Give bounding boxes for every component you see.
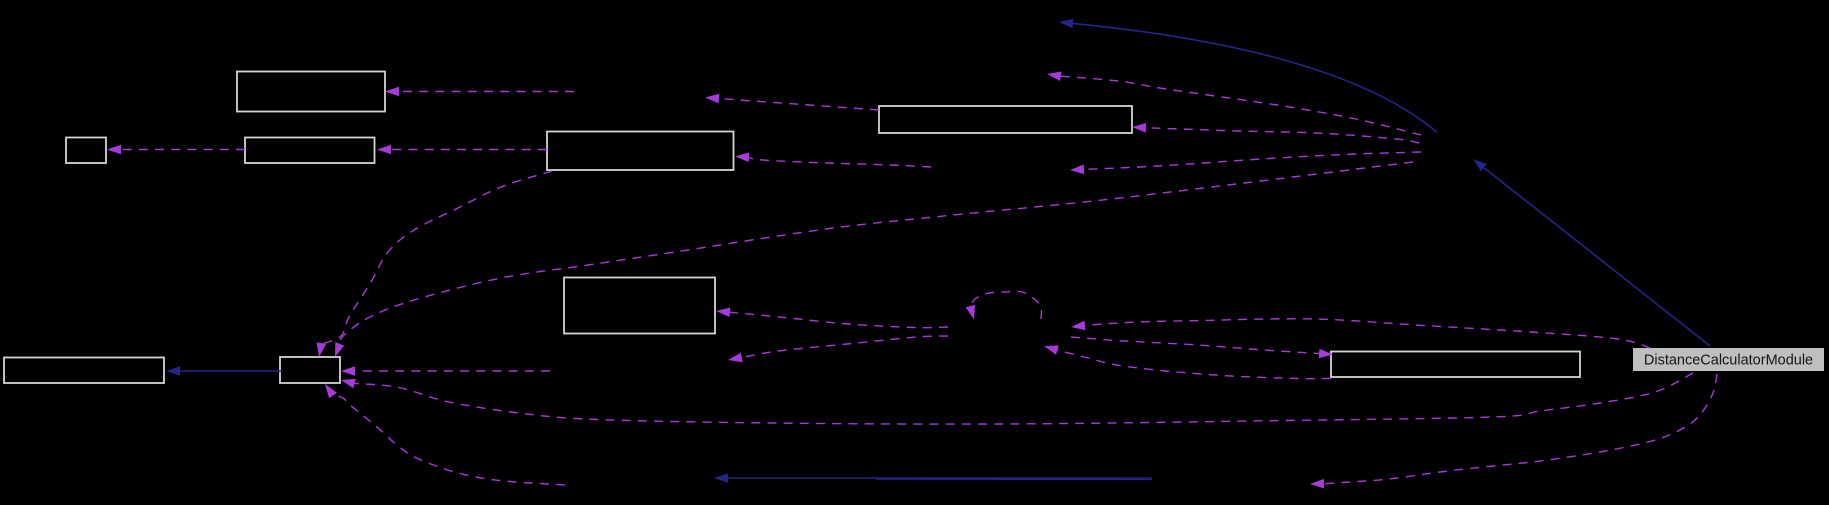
edge boxH to boxG blue xyxy=(166,366,281,376)
edge n_bottom to n_bottom2 blue xyxy=(714,473,1152,483)
node DistanceCalculatorModule xyxy=(1633,348,1824,371)
box F xyxy=(564,278,715,334)
edge n_loop to boxI xyxy=(1071,337,1333,358)
edge hub to boxH long curve xyxy=(335,162,1413,357)
edge DCM to hub blue xyxy=(1473,159,1710,346)
edge n_topmid to boxA xyxy=(385,87,574,97)
box I xyxy=(1331,352,1580,378)
edge selfloop of n_loop xyxy=(966,291,1042,319)
box G xyxy=(4,358,164,384)
edge DCM to n_loop xyxy=(1071,319,1650,348)
box E xyxy=(879,106,1132,133)
edge boxC to boxB xyxy=(107,145,245,155)
edge boxD to boxC xyxy=(377,145,547,155)
svg-text:DistanceCalculatorModule: DistanceCalculatorModule xyxy=(1644,353,1813,369)
edge hub to n_mid xyxy=(1070,152,1421,174)
edge n_mid2 to boxH xyxy=(341,366,550,376)
edge boxE to n_topmid xyxy=(705,94,879,110)
box H xyxy=(280,357,340,383)
wire overlap segment of bottom blue edge xyxy=(876,478,1152,480)
edge DCM to n_bottom xyxy=(1310,374,1717,489)
box D xyxy=(547,132,734,171)
edge hub to boxE xyxy=(1132,123,1419,143)
box C xyxy=(245,138,375,164)
edge hub to n_top4 blue xyxy=(1059,19,1437,133)
edge boxD to boxH curve xyxy=(317,171,552,357)
edge n_loop to boxF xyxy=(716,308,948,328)
edge hub to n_top3 xyxy=(1047,72,1421,136)
edge n_mid to boxD xyxy=(735,152,931,167)
box A xyxy=(237,72,385,112)
edge boxI to n_loop xyxy=(1044,346,1331,379)
edge DCM to boxH long curve xyxy=(341,373,1693,424)
edge n_bottom2 to boxH xyxy=(325,384,565,485)
edge n_loop to n_mid2 xyxy=(728,336,948,362)
box B xyxy=(66,138,106,164)
